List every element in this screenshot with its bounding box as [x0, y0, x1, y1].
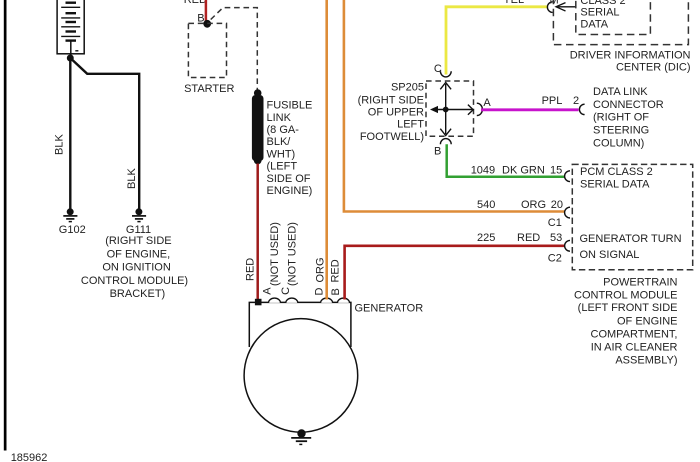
svg-text:DRIVER INFORMATION: DRIVER INFORMATION: [570, 50, 691, 62]
pin B arc: [338, 298, 350, 303]
svg-text:YEL: YEL: [503, 0, 524, 6]
svg-text:ON SIGNAL: ON SIGNAL: [580, 249, 640, 261]
svg-text:(LEFT FRONT SIDE: (LEFT FRONT SIDE: [578, 302, 678, 314]
svg-text:225: 225: [477, 232, 495, 244]
wire ORG from top to generator D: [325, 0, 328, 300]
PCM pin 53 arc: [565, 240, 570, 251]
svg-text:STEERING: STEERING: [593, 125, 649, 137]
svg-text:OF ENGINE: OF ENGINE: [617, 315, 678, 327]
svg-text:PCM CLASS 2: PCM CLASS 2: [580, 166, 653, 178]
svg-text:PPL: PPL: [542, 95, 563, 107]
svg-text:RED: RED: [245, 258, 257, 281]
fusible link: [254, 89, 262, 97]
svg-text:ON IGNITION: ON IGNITION: [102, 262, 171, 274]
svg-text:ORG: ORG: [314, 257, 326, 282]
wire ORG 540 to PCM 20: [344, 0, 565, 212]
starter (dashed box): [188, 23, 226, 77]
ground at generator: [297, 429, 305, 437]
fusible link note: [267, 100, 313, 197]
svg-text:ORG: ORG: [521, 199, 546, 211]
svg-text:COLUMN): COLUMN): [593, 137, 644, 149]
svg-text:C1: C1: [548, 217, 562, 229]
label POWERTRAIN CONTROL MODULE: [574, 276, 678, 366]
svg-text:SERIAL: SERIAL: [580, 7, 619, 19]
svg-text:SIDE OF: SIDE OF: [267, 173, 311, 185]
svg-text:A: A: [261, 287, 273, 295]
ground G111: [132, 208, 146, 221]
svg-text:(8 GA-: (8 GA-: [267, 124, 300, 136]
svg-text:A: A: [483, 97, 491, 109]
wire RED 225 generator B to PCM 53: [345, 246, 565, 300]
generator: [249, 302, 351, 347]
svg-text:FUSIBLE: FUSIBLE: [267, 100, 313, 112]
DIC outer dashed box: [553, 0, 688, 45]
border frame left: [4, 0, 7, 451]
PCM dashed box: [572, 164, 692, 269]
svg-text:53: 53: [550, 232, 562, 244]
svg-text:STARTER: STARTER: [184, 83, 234, 95]
svg-text:ASSEMBLY): ASSEMBLY): [615, 354, 677, 366]
label DRIVER INFORMATION CENTER: [570, 50, 691, 74]
DIC class 2 serial data block: [580, 0, 625, 31]
svg-text:GENERATOR: GENERATOR: [355, 302, 424, 314]
wire RED fusible link to generator: [256, 164, 259, 301]
G111 location note: [81, 235, 188, 300]
DLC terminal arc: [579, 104, 584, 114]
svg-text:C2: C2: [548, 252, 562, 264]
svg-text:CONNECTOR: CONNECTOR: [593, 99, 664, 111]
svg-text:DATA LINK: DATA LINK: [593, 86, 648, 98]
svg-text:BLK: BLK: [126, 168, 138, 189]
svg-text:BLK: BLK: [54, 134, 66, 155]
terminal B arc: [440, 139, 451, 145]
svg-text:GENERATOR TURN: GENERATOR TURN: [580, 233, 682, 245]
PCM pin 15 arc: [565, 171, 570, 182]
svg-text:RED: RED: [517, 232, 540, 244]
svg-text:SP205: SP205: [391, 81, 424, 93]
DIC inner dashed box: [576, 0, 651, 35]
svg-text:BLK/: BLK/: [267, 136, 292, 148]
terminal C arc: [440, 71, 451, 77]
svg-text:DK GRN: DK GRN: [502, 164, 545, 176]
svg-text:RED: RED: [330, 259, 342, 282]
svg-text:(RIGHT SIDE: (RIGHT SIDE: [105, 235, 171, 247]
pin A arc: [269, 298, 281, 303]
svg-text:185962: 185962: [11, 452, 48, 462]
svg-text:20: 20: [551, 199, 563, 211]
svg-text:(NOT USED): (NOT USED): [286, 222, 298, 286]
svg-text:CONTROL MODULE: CONTROL MODULE: [574, 289, 678, 301]
svg-text:2: 2: [573, 95, 579, 107]
wire DK GRN 1049 SP205 B to PCM 15: [447, 144, 565, 176]
svg-text:OF UPPER: OF UPPER: [368, 106, 424, 118]
svg-text:1049: 1049: [471, 164, 495, 176]
svg-text:COMPARTMENT,: COMPARTMENT,: [591, 328, 678, 340]
svg-text:CENTER (DIC): CENTER (DIC): [616, 62, 691, 74]
DLC label block: [593, 86, 664, 149]
pin C arc: [286, 298, 298, 303]
svg-text:BRACKET): BRACKET): [110, 288, 166, 300]
wire dashed from B to fusible link: [211, 8, 258, 90]
arrow into DIC: [556, 6, 576, 8]
wire YEL to DIC M: [446, 7, 547, 75]
svg-text:OF ENGINE,: OF ENGINE,: [107, 248, 171, 260]
svg-text:FOOTWELL): FOOTWELL): [360, 131, 424, 143]
PCM pin 20 arc: [565, 207, 570, 218]
svg-text:(RIGHT OF: (RIGHT OF: [593, 112, 649, 124]
svg-text:LINK: LINK: [267, 112, 292, 124]
svg-text:(RIGHT SIDE: (RIGHT SIDE: [358, 94, 424, 106]
wire BLK to G102: [69, 58, 71, 210]
svg-text:D: D: [314, 288, 326, 296]
node BAT junction on generator: [255, 299, 262, 306]
label SP205 location: [358, 81, 425, 143]
ground G102: [63, 208, 77, 221]
wire PPL to DLC 2: [481, 108, 579, 111]
svg-text:CONTROL MODULE): CONTROL MODULE): [81, 275, 188, 287]
svg-text:G111: G111: [126, 224, 151, 236]
battery B+: [57, 0, 84, 57]
wire BLK to G111: [70, 58, 139, 210]
svg-text:IN AIR CLEANER: IN AIR CLEANER: [591, 341, 678, 353]
svg-text:B: B: [330, 288, 342, 295]
node battery negative junction: [67, 55, 74, 62]
svg-text:15: 15: [550, 164, 562, 176]
DIC M terminal arc: [547, 2, 552, 13]
pin D arc: [321, 298, 333, 303]
terminal A arc: [477, 103, 483, 115]
svg-text:SERIAL DATA: SERIAL DATA: [580, 179, 650, 191]
svg-text:(NOT USED): (NOT USED): [269, 222, 281, 286]
wire RED into starter B: [205, 0, 208, 24]
svg-text:WHT): WHT): [267, 148, 296, 160]
svg-text:LEFT: LEFT: [397, 119, 424, 131]
svg-text:RED: RED: [184, 0, 207, 6]
svg-text:B: B: [434, 145, 441, 157]
svg-text:POWERTRAIN: POWERTRAIN: [603, 276, 677, 288]
svg-text:DATA: DATA: [580, 19, 608, 31]
svg-text:540: 540: [477, 199, 495, 211]
svg-text:ENGINE): ENGINE): [267, 185, 313, 197]
svg-text:C: C: [280, 287, 292, 295]
svg-text:(LEFT: (LEFT: [267, 161, 298, 173]
svg-text:G102: G102: [59, 224, 86, 236]
